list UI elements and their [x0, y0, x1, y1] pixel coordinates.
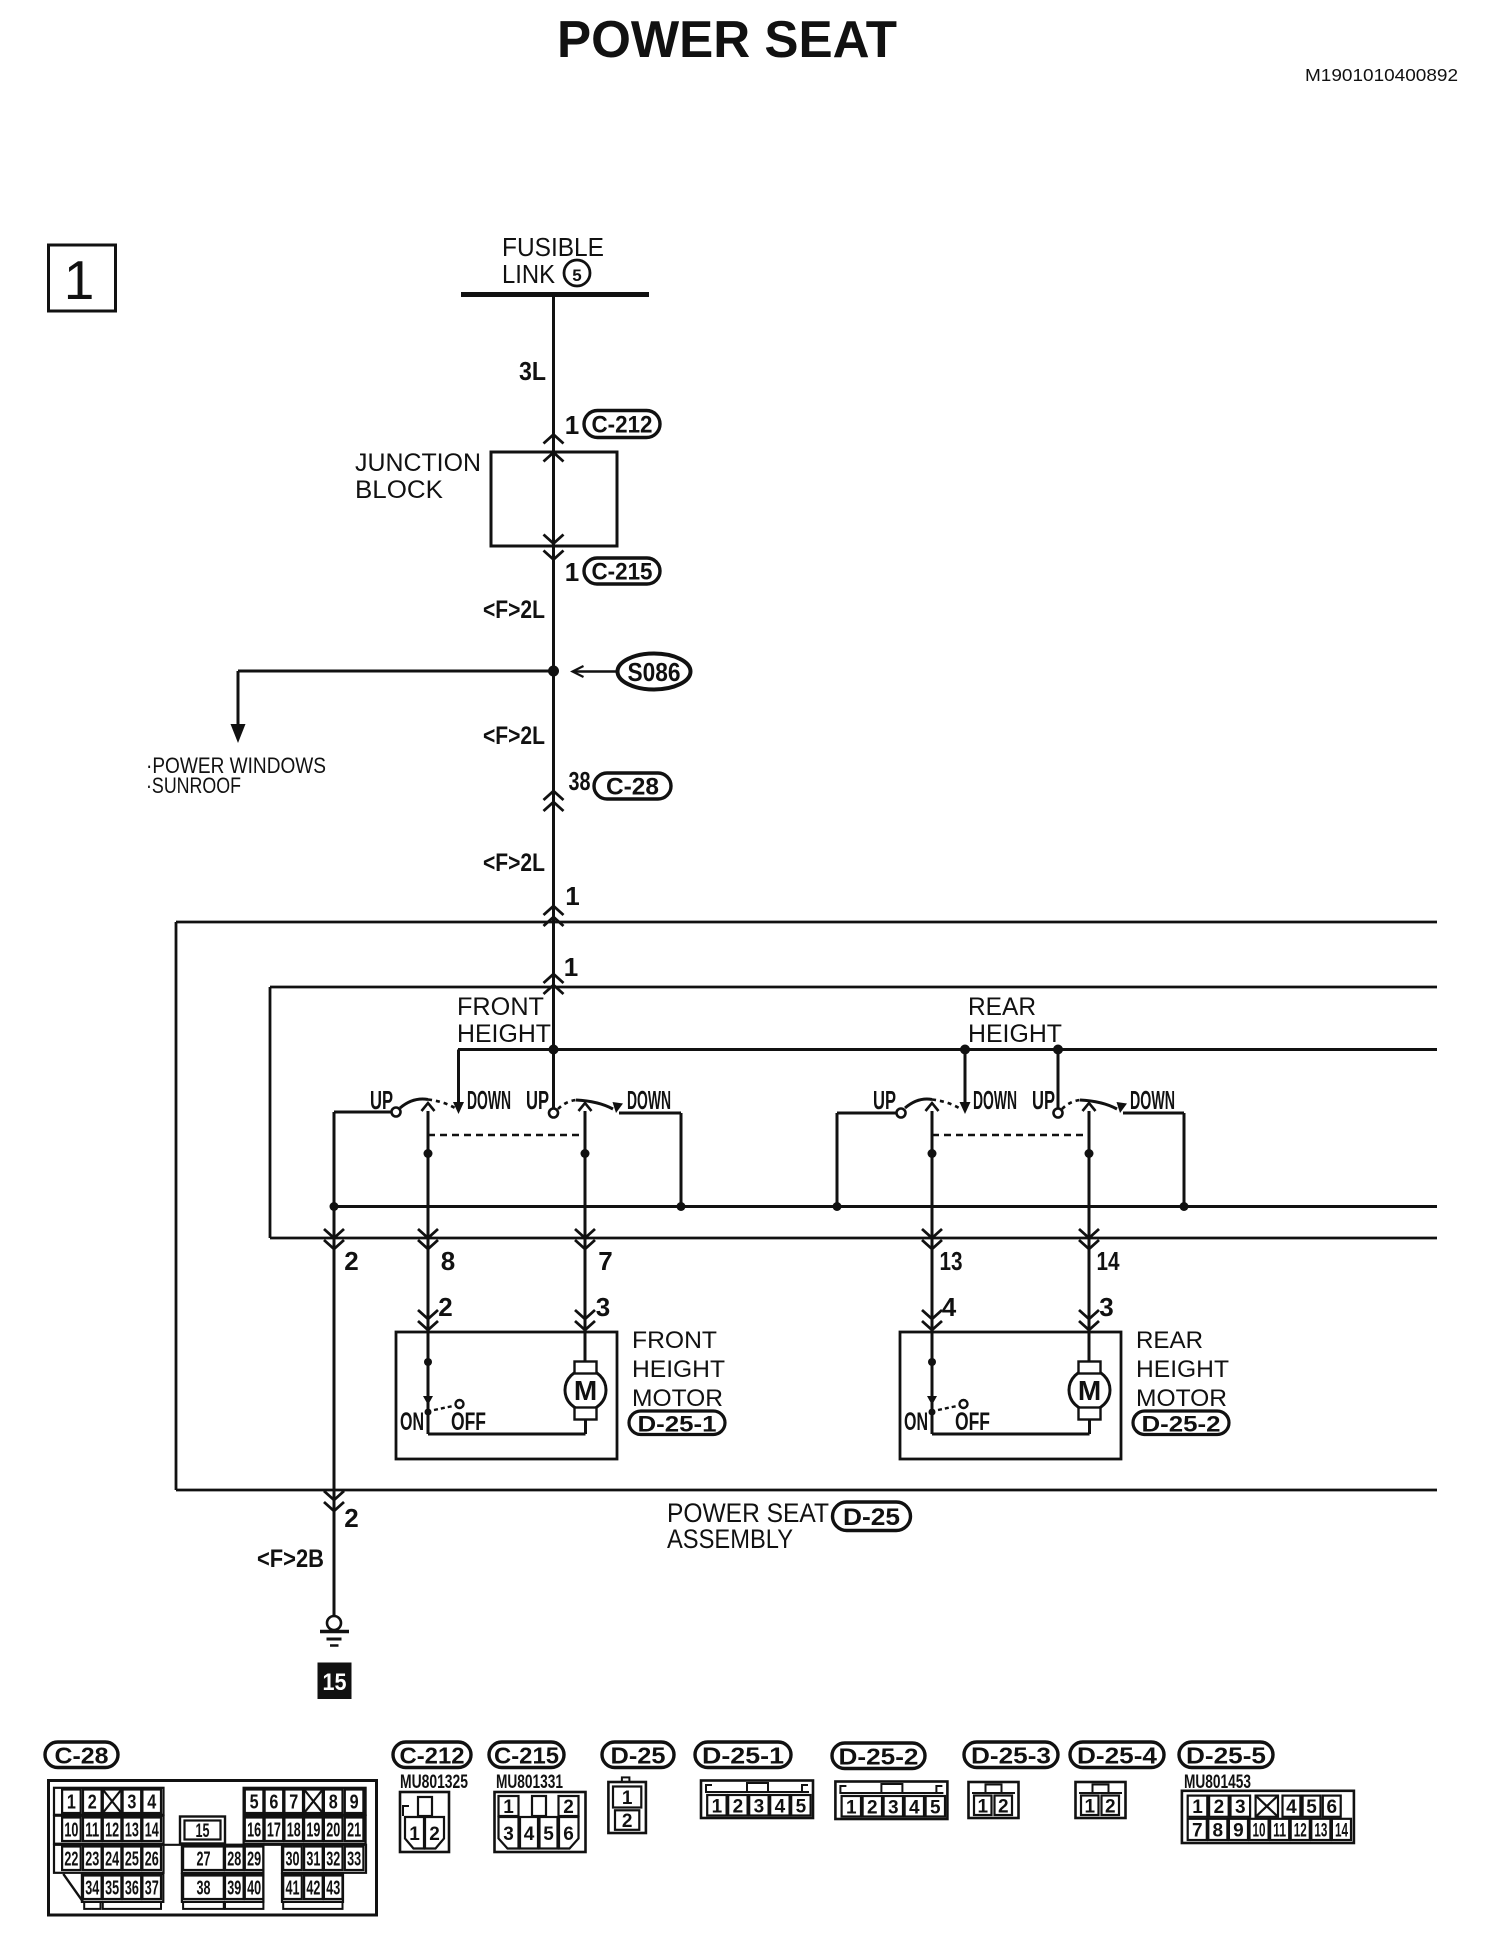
svg-text:C-28: C-28 [55, 1742, 109, 1768]
svg-text:2: 2 [88, 1791, 97, 1813]
svg-text:FRONT: FRONT [632, 1327, 717, 1354]
svg-text:5: 5 [930, 1797, 941, 1818]
svg-text:10: 10 [1253, 1820, 1266, 1841]
svg-text:25: 25 [125, 1848, 139, 1870]
svg-text:37: 37 [145, 1877, 159, 1899]
svg-text:ON: ON [904, 1408, 928, 1436]
svg-text:2: 2 [344, 1246, 358, 1276]
svg-text:33: 33 [347, 1848, 361, 1870]
svg-text:<F>2B: <F>2B [257, 1545, 324, 1573]
svg-text:35: 35 [105, 1877, 119, 1899]
svg-text:5: 5 [796, 1796, 807, 1817]
svg-text:1: 1 [565, 410, 579, 440]
svg-text:1: 1 [565, 881, 579, 911]
svg-text:6: 6 [1326, 1797, 1337, 1818]
svg-text:5: 5 [1306, 1797, 1317, 1818]
svg-text:9: 9 [350, 1791, 359, 1813]
svg-text:13: 13 [940, 1246, 963, 1276]
svg-text:1: 1 [846, 1797, 857, 1818]
svg-text:M: M [1078, 1375, 1101, 1406]
svg-text:7: 7 [1192, 1820, 1203, 1841]
svg-text:C-212: C-212 [400, 1742, 465, 1768]
svg-text:15: 15 [196, 1821, 210, 1842]
svg-text:22: 22 [64, 1848, 78, 1870]
svg-text:DOWN: DOWN [973, 1085, 1017, 1115]
svg-text:C-215: C-215 [592, 559, 653, 586]
svg-text:12: 12 [105, 1819, 119, 1841]
svg-text:D-25: D-25 [611, 1742, 666, 1768]
svg-text:16: 16 [247, 1819, 261, 1841]
svg-text:D-25-2: D-25-2 [839, 1743, 919, 1769]
svg-text:4: 4 [1286, 1797, 1297, 1818]
svg-text:S086: S086 [628, 657, 681, 687]
svg-text:MOTOR: MOTOR [1136, 1385, 1227, 1412]
svg-text:1: 1 [712, 1796, 723, 1817]
svg-text:D-25-3: D-25-3 [971, 1742, 1051, 1768]
svg-text:5: 5 [543, 1824, 554, 1845]
svg-text:D-25: D-25 [843, 1504, 900, 1531]
svg-text:HEIGHT: HEIGHT [1136, 1356, 1229, 1383]
svg-text:42: 42 [306, 1877, 320, 1899]
svg-text:HEIGHT: HEIGHT [632, 1356, 725, 1383]
svg-text:1: 1 [64, 249, 95, 311]
svg-text:7: 7 [289, 1791, 298, 1813]
svg-text:FRONT: FRONT [457, 993, 544, 1021]
svg-text:POWER SEAT: POWER SEAT [557, 11, 897, 69]
svg-text:2: 2 [1214, 1797, 1225, 1818]
svg-text:4: 4 [909, 1797, 920, 1818]
svg-text:1: 1 [977, 1796, 988, 1817]
svg-text:8: 8 [1213, 1820, 1224, 1841]
svg-text:FUSIBLE: FUSIBLE [502, 232, 604, 262]
svg-text:40: 40 [247, 1877, 261, 1899]
svg-text:4: 4 [775, 1796, 786, 1817]
svg-text:C-212: C-212 [592, 412, 653, 439]
svg-text:<F>2L: <F>2L [483, 849, 545, 877]
svg-text:13: 13 [125, 1819, 139, 1841]
svg-text:BLOCK: BLOCK [355, 476, 443, 504]
svg-text:3: 3 [888, 1797, 899, 1818]
svg-text:MU801325: MU801325 [400, 1772, 468, 1793]
svg-text:M1901010400892: M1901010400892 [1305, 65, 1458, 85]
svg-text:21: 21 [347, 1819, 361, 1841]
svg-text:11: 11 [1273, 1820, 1286, 1841]
svg-text:MOTOR: MOTOR [632, 1385, 723, 1412]
svg-text:DOWN: DOWN [1130, 1085, 1175, 1115]
svg-text:3: 3 [754, 1796, 765, 1817]
svg-text:REAR: REAR [1136, 1327, 1203, 1354]
svg-text:30: 30 [286, 1848, 300, 1870]
svg-text:UP: UP [526, 1085, 549, 1115]
svg-text:3: 3 [127, 1791, 136, 1813]
svg-text:20: 20 [326, 1819, 340, 1841]
svg-text:2: 2 [438, 1292, 452, 1322]
svg-text:5: 5 [250, 1791, 259, 1813]
svg-text:8: 8 [329, 1791, 338, 1813]
svg-text:1: 1 [67, 1791, 76, 1813]
svg-text:DOWN: DOWN [467, 1085, 511, 1115]
svg-text:3: 3 [1099, 1292, 1113, 1322]
svg-text:UP: UP [1032, 1085, 1055, 1115]
svg-text:D-25-5: D-25-5 [1186, 1742, 1266, 1768]
svg-text:1: 1 [409, 1824, 420, 1845]
svg-text:5: 5 [572, 266, 581, 285]
svg-text:OFF: OFF [451, 1408, 486, 1436]
svg-text:32: 32 [326, 1848, 340, 1870]
svg-text:LINK: LINK [502, 259, 556, 289]
svg-text:2: 2 [344, 1503, 358, 1533]
svg-text:3L: 3L [519, 356, 546, 386]
svg-text:8: 8 [441, 1246, 455, 1276]
svg-text:13: 13 [1314, 1820, 1327, 1841]
svg-text:3: 3 [596, 1292, 610, 1322]
svg-text:6: 6 [269, 1791, 278, 1813]
svg-text:27: 27 [196, 1848, 210, 1870]
svg-text:31: 31 [306, 1848, 320, 1870]
svg-text:4: 4 [942, 1292, 957, 1322]
svg-text:OFF: OFF [955, 1408, 990, 1436]
svg-text:14: 14 [1335, 1820, 1348, 1841]
svg-text:<F>2L: <F>2L [483, 722, 545, 750]
svg-text:12: 12 [1294, 1820, 1307, 1841]
svg-text:28: 28 [227, 1848, 241, 1870]
svg-text:UP: UP [873, 1085, 896, 1115]
svg-text:D-25-2: D-25-2 [1142, 1411, 1221, 1436]
svg-text:1: 1 [565, 557, 579, 587]
svg-text:<F>2L: <F>2L [483, 596, 545, 624]
svg-text:C-28: C-28 [606, 774, 659, 801]
svg-text:15: 15 [323, 1669, 347, 1696]
svg-text:10: 10 [64, 1819, 78, 1841]
svg-text:24: 24 [105, 1848, 120, 1870]
svg-text:2: 2 [998, 1796, 1009, 1817]
svg-text:D-25-1: D-25-1 [702, 1742, 784, 1768]
svg-text:ON: ON [400, 1408, 424, 1436]
svg-text:MU801331: MU801331 [496, 1772, 563, 1793]
svg-text:DOWN: DOWN [627, 1085, 671, 1115]
svg-text:1: 1 [622, 1788, 633, 1809]
svg-text:1: 1 [503, 1797, 514, 1818]
svg-text:HEIGHT: HEIGHT [457, 1020, 551, 1048]
svg-text:3: 3 [503, 1824, 514, 1845]
svg-text:D-25-4: D-25-4 [1077, 1742, 1157, 1768]
svg-text:2: 2 [622, 1811, 633, 1832]
svg-text:·SUNROOF: ·SUNROOF [146, 773, 241, 798]
svg-text:2: 2 [563, 1797, 574, 1818]
svg-text:34: 34 [85, 1877, 100, 1899]
svg-text:2: 2 [867, 1797, 878, 1818]
svg-text:D-25-1: D-25-1 [638, 1411, 717, 1436]
svg-text:43: 43 [326, 1877, 340, 1899]
svg-text:C-215: C-215 [494, 1742, 559, 1768]
svg-text:17: 17 [267, 1819, 281, 1841]
svg-text:14: 14 [145, 1819, 160, 1841]
svg-text:4: 4 [524, 1824, 535, 1845]
svg-text:14: 14 [1097, 1246, 1120, 1276]
svg-text:38: 38 [569, 766, 591, 796]
svg-text:M: M [574, 1375, 597, 1406]
svg-text:29: 29 [247, 1848, 261, 1870]
svg-text:41: 41 [286, 1877, 300, 1899]
svg-text:18: 18 [287, 1819, 301, 1841]
svg-text:9: 9 [1233, 1820, 1244, 1841]
svg-text:ASSEMBLY: ASSEMBLY [667, 1524, 793, 1554]
svg-text:38: 38 [196, 1877, 210, 1899]
svg-text:UP: UP [370, 1085, 393, 1115]
svg-text:REAR: REAR [968, 993, 1036, 1021]
svg-text:36: 36 [125, 1877, 139, 1899]
svg-text:26: 26 [145, 1848, 159, 1870]
svg-text:19: 19 [306, 1819, 320, 1841]
svg-text:39: 39 [227, 1877, 241, 1899]
svg-text:JUNCTION: JUNCTION [355, 449, 481, 477]
svg-text:11: 11 [85, 1819, 99, 1841]
svg-text:HEIGHT: HEIGHT [968, 1020, 1062, 1048]
svg-text:3: 3 [1235, 1797, 1246, 1818]
svg-text:23: 23 [85, 1848, 99, 1870]
svg-text:2: 2 [1105, 1796, 1116, 1817]
svg-text:6: 6 [563, 1824, 574, 1845]
svg-text:1: 1 [564, 952, 578, 982]
svg-text:1: 1 [1084, 1796, 1095, 1817]
svg-text:2: 2 [429, 1824, 440, 1845]
svg-text:2: 2 [733, 1796, 744, 1817]
svg-text:1: 1 [1192, 1797, 1203, 1818]
svg-text:7: 7 [598, 1246, 612, 1276]
svg-text:4: 4 [147, 1791, 157, 1813]
